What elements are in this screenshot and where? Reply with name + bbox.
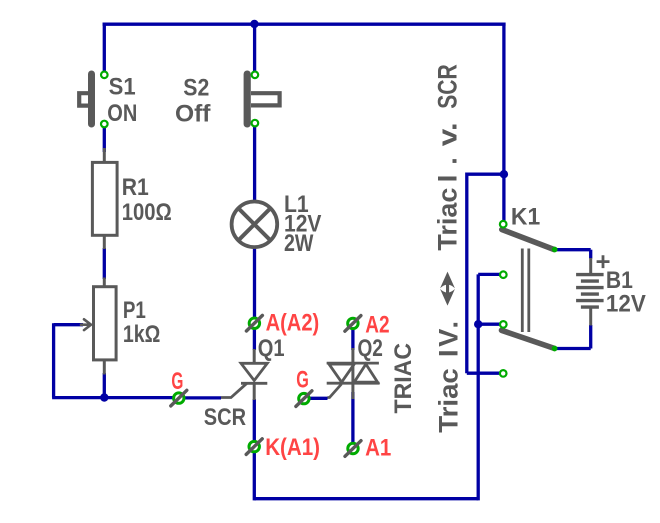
svg-text:Triac: Triac — [433, 188, 463, 251]
battery B1 plus lead — [589, 258, 592, 274]
svg-text:A2: A2 — [365, 312, 389, 339]
svg-text:K(A1): K(A1) — [265, 434, 320, 461]
wire P1 to bottom junction — [103, 373, 106, 398]
terminal K1 pivot2 — [500, 321, 507, 328]
svg-text:G: G — [296, 366, 309, 393]
svg-text:G: G — [171, 368, 183, 395]
svg-text:Triac: Triac — [434, 368, 464, 433]
terminal K1 middle — [500, 271, 507, 278]
svg-text:SCR: SCR — [204, 404, 246, 431]
wire right riser — [477, 274, 480, 500]
svg-text:SCR: SCR — [433, 64, 463, 109]
svg-text:ON: ON — [107, 100, 137, 127]
junction dot top bus — [250, 20, 258, 28]
wire top bus — [103, 23, 506, 26]
SCR Q1 anode lead — [253, 349, 256, 362]
terminal K1 lower — [500, 370, 507, 377]
lamp L1 body — [232, 202, 278, 248]
wire relay middle terminal — [478, 273, 503, 276]
potentiometer P1 body — [94, 287, 117, 360]
triac Q2 left triangle — [329, 364, 354, 382]
junction dot top right — [500, 170, 508, 178]
triac Q2 center line — [351, 348, 354, 399]
svg-text:Off: Off — [175, 100, 212, 127]
junction dot relay — [474, 320, 482, 328]
svg-text:A1: A1 — [365, 434, 391, 461]
wire R1 to P1 — [103, 248, 106, 279]
svg-text:IV.: IV. — [434, 321, 464, 357]
wire S2 to L1 — [253, 123, 256, 200]
svg-text:12V: 12V — [606, 291, 646, 318]
resistor R1 body — [92, 162, 117, 235]
SCR Q1 gate lead — [221, 383, 247, 397]
wire wiper left vertical — [52, 323, 55, 397]
wire Q2 gate — [304, 397, 328, 400]
svg-text:K1: K1 — [511, 204, 540, 231]
switch S1 body — [79, 71, 95, 128]
junction dot bottom left — [100, 393, 108, 401]
relay K1 lever 2 — [502, 330, 555, 348]
svg-text:P1: P1 — [123, 297, 146, 324]
SCR Q1 cathode lead — [253, 383, 256, 400]
wire K(A1) to bottom bus — [253, 447, 256, 501]
wire bottom-left bus to G — [52, 396, 179, 399]
wire top right drop — [502, 23, 505, 225]
pad A(A2) — [246, 315, 262, 331]
resistor R1 bottom lead — [103, 235, 106, 249]
triac Q2 gate lead — [328, 384, 342, 398]
wire G to SCR gate — [179, 396, 221, 399]
svg-text:A(A2): A(A2) — [266, 310, 320, 337]
wire bottom bus — [254, 497, 478, 500]
svg-text:100Ω: 100Ω — [122, 199, 172, 226]
terminal K1 pivot1 — [500, 221, 507, 228]
battery B1 plus sign — [597, 255, 610, 268]
wire center drop to S2 — [253, 23, 256, 75]
wire battery minus drop — [589, 325, 592, 349]
pad G of SCR — [171, 390, 187, 406]
wire junction left — [467, 173, 504, 176]
SCR Q1 cathode bar — [241, 382, 267, 385]
battery B1 minus lead — [589, 308, 592, 326]
svg-text:TRIAC: TRIAC — [390, 343, 417, 414]
wire S1 to R1 — [103, 124, 106, 152]
resistor R1 top lead — [103, 148, 106, 162]
wire A(A2) to SCR anode — [253, 323, 256, 350]
wire left relay vertical — [465, 173, 468, 374]
svg-text:I.: I. — [433, 157, 463, 182]
triac Q2 top bar — [327, 362, 379, 365]
potentiometer P1 wiper arrow — [81, 319, 91, 330]
svg-text:S2: S2 — [183, 75, 209, 102]
pad A1 — [345, 441, 361, 457]
pad G of triac — [296, 391, 312, 407]
wire to relay lower terminal — [467, 372, 503, 375]
wire SCR cathode to K(A1) — [253, 399, 256, 447]
double arrow symbol — [440, 272, 455, 306]
SCR Q1 triangle — [241, 363, 267, 380]
wire lever1 to battery plus — [555, 248, 591, 251]
svg-text:Q1: Q1 — [258, 335, 285, 362]
terminal S2 bottom — [252, 120, 259, 127]
wire relay pivot2 — [478, 323, 503, 326]
svg-text:1kΩ: 1kΩ — [123, 321, 160, 348]
wire Q2 A1 lead — [351, 392, 354, 449]
wire L1 to A(A2) — [253, 249, 256, 324]
lamp L1 cross — [238, 208, 270, 240]
wire Q2 A2 lead — [351, 329, 354, 350]
switch S2 body — [244, 71, 280, 128]
terminal S1 bottom — [101, 121, 108, 128]
wire wiper horizontal — [54, 323, 83, 326]
triac Q2 bottom bar — [327, 382, 380, 385]
svg-text:2W: 2W — [284, 230, 314, 257]
potentiometer P1 top lead — [103, 278, 106, 287]
svg-text:v.: v. — [433, 122, 463, 146]
relay K1 lever1 end dot — [552, 247, 558, 253]
battery B1 plates — [576, 275, 604, 301]
relay K1 coil lines — [522, 249, 529, 333]
pad K(A1) — [246, 439, 262, 455]
terminal S1 top — [101, 72, 108, 79]
wire S1 top drop — [103, 23, 106, 75]
svg-text:Q2: Q2 — [358, 335, 383, 362]
svg-text:R1: R1 — [122, 174, 149, 201]
triac Q2 right triangle — [354, 364, 377, 382]
wire battery plus drop — [589, 250, 592, 259]
pad A2 — [345, 316, 361, 332]
svg-text:S1: S1 — [109, 74, 136, 101]
potentiometer P1 bottom lead — [103, 361, 106, 375]
relay K1 lever2 end dot — [552, 346, 558, 352]
terminal S2 top — [252, 72, 259, 79]
relay K1 lever 1 — [502, 230, 554, 250]
wire battery minus to lever2 — [556, 347, 591, 350]
